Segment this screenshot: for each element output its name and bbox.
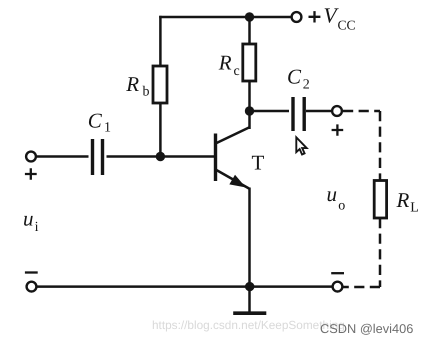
svg-text:c: c	[234, 64, 240, 79]
resistor Rc	[243, 44, 256, 81]
wire C1 to base	[107, 155, 215, 158]
svg-text:R: R	[218, 51, 232, 75]
label input minus	[25, 271, 38, 273]
wire C2 to output terminal	[306, 110, 332, 113]
svg-text:o: o	[338, 198, 345, 213]
terminal input plus	[26, 152, 36, 162]
wire input terminal to C1	[36, 155, 89, 158]
wire RL dashed right vertical top	[379, 111, 382, 181]
wire bottom rail	[37, 285, 332, 288]
svg-text:CSDN @levi406: CSDN @levi406	[320, 321, 413, 336]
terminal output minus	[333, 282, 343, 292]
label input plus	[25, 168, 37, 179]
svg-text:https://blog.csdn.net/KeepSome: https://blog.csdn.net/KeepSomething	[152, 318, 345, 332]
wire Rc bottom vertical	[248, 81, 251, 111]
svg-text:1: 1	[104, 121, 111, 136]
svg-text:CC: CC	[338, 18, 356, 33]
svg-text:2: 2	[303, 78, 310, 93]
node top rail junction	[245, 12, 254, 21]
node collector junction	[245, 106, 254, 115]
wire RL dashed bottom	[344, 286, 381, 289]
svg-text:R: R	[396, 188, 410, 212]
svg-text:C: C	[287, 65, 302, 89]
svg-text:u: u	[23, 206, 34, 230]
terminal input minus	[27, 282, 37, 292]
svg-text:R: R	[125, 72, 139, 96]
transistor emitter arrow	[230, 176, 244, 187]
label output plus	[332, 124, 344, 135]
capacitor C2	[293, 97, 304, 131]
wire Rb bottom vertical	[159, 103, 162, 157]
wire Rb top vertical	[159, 16, 162, 66]
wire Rc top vertical	[248, 17, 251, 44]
svg-text:b: b	[143, 85, 150, 100]
terminal Vcc	[292, 12, 302, 22]
cursor	[296, 137, 306, 154]
resistor RL	[374, 181, 386, 219]
svg-text:L: L	[410, 201, 419, 216]
resistor Rb	[153, 66, 167, 103]
wire RL dashed right vertical bottom	[379, 218, 382, 287]
label +Vcc	[309, 11, 321, 22]
wire collector to C2 node	[250, 110, 290, 113]
terminal output plus	[332, 106, 342, 116]
transistor T	[216, 111, 250, 287]
wire RL dashed top	[343, 110, 380, 113]
wire top rail	[159, 16, 291, 19]
ground	[233, 287, 266, 314]
capacitor C1	[93, 139, 103, 175]
node emitter-ground junction	[245, 282, 254, 291]
svg-text:T: T	[252, 151, 265, 175]
label output minus	[331, 272, 344, 274]
svg-text:u: u	[327, 182, 338, 206]
svg-text:i: i	[35, 220, 39, 235]
node base junction	[156, 152, 165, 161]
svg-text:C: C	[88, 109, 103, 133]
